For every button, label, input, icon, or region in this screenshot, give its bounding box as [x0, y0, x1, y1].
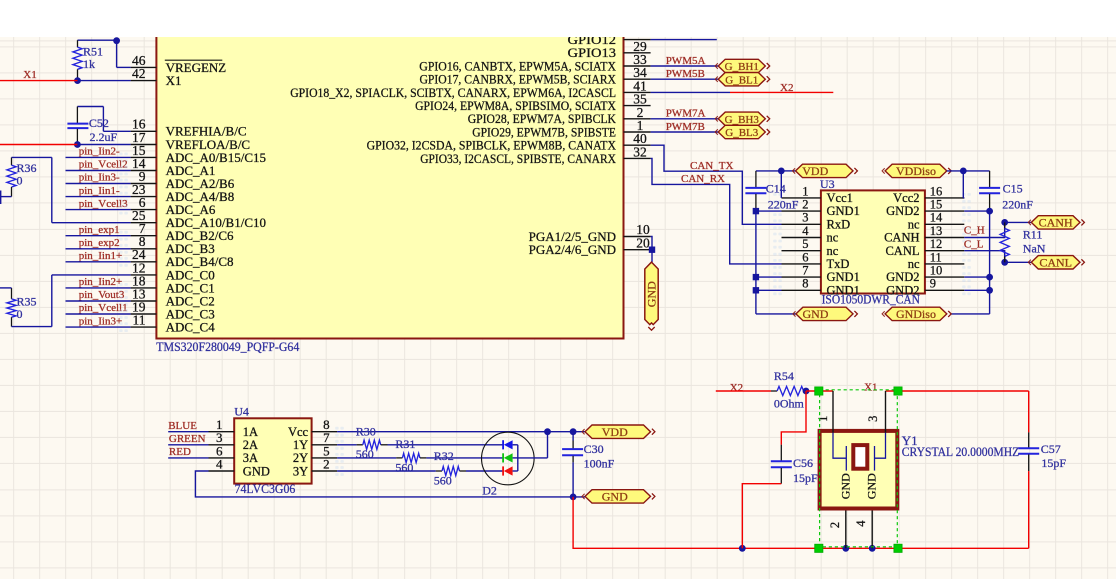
wire	[780, 171, 782, 198]
U2 pin 19 (ADC_C3)	[131, 299, 215, 321]
wire VDD row	[337, 431, 585, 433]
wire	[951, 313, 990, 315]
svg-text:GND1: GND1	[827, 270, 860, 284]
svg-text:PGA2/4/6_GND: PGA2/4/6_GND	[529, 242, 616, 257]
wire	[756, 289, 782, 291]
wire	[168, 457, 208, 459]
svg-text:C56: C56	[793, 456, 813, 470]
svg-text:X1: X1	[166, 73, 182, 88]
wire	[651, 250, 653, 262]
svg-text:32: 32	[633, 144, 647, 159]
junction	[1001, 219, 1008, 226]
wire	[547, 432, 549, 458]
junction	[753, 208, 759, 214]
U2 pin 23 (ADC_A4/B8)	[131, 182, 235, 204]
svg-text:C_L: C_L	[964, 238, 984, 250]
wire	[964, 210, 989, 212]
U3 pin 12 (CANL)	[885, 237, 964, 258]
svg-text:GREEN: GREEN	[169, 433, 206, 445]
wire	[756, 170, 781, 172]
wire	[103, 130, 130, 132]
svg-text:pin_Vcell3: pin_Vcell3	[79, 198, 128, 210]
wire CAN_TX	[651, 145, 782, 224]
svg-text:42: 42	[132, 66, 146, 81]
svg-text:2: 2	[828, 522, 842, 528]
svg-text:GPIO33, I2CASCL, SPIBSTE, CANA: GPIO33, I2CASCL, SPIBSTE, CANARX	[420, 151, 616, 166]
port CANH	[1031, 216, 1080, 229]
svg-text:9: 9	[930, 277, 936, 291]
U2 pin 8 (ADC_B3)	[131, 234, 215, 256]
U2 pin 9 (ADC_A2/B6)	[131, 169, 235, 191]
svg-text:4: 4	[216, 456, 223, 471]
junction	[544, 428, 551, 435]
U4 pin 2 (3Y)	[293, 456, 337, 478]
U2 pin 11 (ADC_C4)	[131, 313, 216, 335]
svg-text:GND1: GND1	[827, 283, 860, 297]
svg-text:nc: nc	[827, 231, 839, 245]
wire	[989, 211, 991, 314]
svg-text:nc: nc	[908, 217, 920, 231]
U2 pin 17 (VREFLOA/B/C)	[131, 130, 251, 152]
svg-text:10: 10	[930, 264, 943, 278]
port G_BL1	[718, 73, 765, 86]
wire	[52, 222, 131, 224]
capacitor C14	[745, 171, 798, 212]
svg-text:GNDiso: GNDiso	[896, 307, 936, 321]
svg-text:CRYSTAL 20.0000MHZ: CRYSTAL 20.0000MHZ	[902, 444, 1020, 459]
svg-text:CANL: CANL	[885, 244, 919, 258]
net label pin_Iin2+	[66, 276, 131, 288]
net label pin_Vcell3	[66, 198, 131, 210]
junction	[869, 545, 876, 552]
svg-text:4: 4	[854, 520, 868, 527]
svg-text:12: 12	[930, 237, 943, 251]
svg-text:3: 3	[802, 211, 808, 225]
wire	[78, 80, 131, 82]
U3 pin 1 (Vcc1)	[782, 184, 853, 205]
IC U3 ISO1050DWR_CAN body	[821, 190, 925, 293]
wire	[102, 107, 104, 132]
LED D2 element (green)	[503, 453, 518, 462]
svg-text:CANH: CANH	[884, 231, 919, 245]
svg-text:C52: C52	[89, 116, 109, 130]
svg-text:560: 560	[395, 461, 413, 475]
capacitor C57	[1018, 432, 1066, 471]
svg-text:GND: GND	[838, 473, 852, 499]
net wire (red)	[806, 390, 833, 392]
svg-text:Vcc1: Vcc1	[827, 191, 853, 205]
svg-text:R54: R54	[774, 369, 794, 383]
net X2 wire (red)	[730, 91, 833, 93]
wire	[756, 276, 782, 278]
junction	[986, 274, 993, 281]
svg-text:G_BH3: G_BH3	[725, 114, 760, 126]
wire PWM7A	[651, 118, 719, 120]
LED D2 element (blue)	[503, 440, 518, 449]
wire	[66, 196, 131, 198]
svg-text:2Y: 2Y	[293, 451, 308, 465]
wire PWM5B	[651, 78, 719, 80]
U2 pin 34 (GPIO16)	[419, 58, 650, 80]
svg-text:1k: 1k	[83, 57, 95, 71]
junction	[74, 141, 81, 148]
svg-text:2: 2	[802, 198, 808, 212]
U2 pin 13 (ADC_C2)	[131, 286, 215, 308]
wire	[963, 170, 989, 172]
U2 pin 46 (VREGENZ)	[131, 53, 227, 75]
wire	[0, 191, 2, 205]
svg-text:74LVC3G06: 74LVC3G06	[235, 481, 296, 496]
wire	[962, 171, 964, 198]
svg-text:pin_Iin3-: pin_Iin3-	[79, 172, 120, 184]
crystal GND pad labels	[838, 473, 878, 499]
selection handle (green)	[894, 387, 902, 395]
svg-text:pin_exp1: pin_exp1	[79, 224, 120, 236]
junction	[74, 77, 81, 84]
svg-text:5: 5	[802, 237, 808, 251]
junction	[960, 168, 967, 175]
net label pin_Vcell1	[66, 302, 131, 314]
crystal Y1 pin 3	[866, 391, 885, 433]
svg-text:VDDiso: VDDiso	[896, 164, 936, 178]
wire GPIO12 stub	[651, 39, 717, 41]
wire	[12, 326, 52, 328]
resistor R31	[337, 437, 426, 475]
svg-text:2: 2	[323, 456, 330, 471]
junction	[113, 37, 120, 44]
selection handle (green)	[815, 387, 823, 395]
capacitor C56	[771, 445, 818, 485]
svg-text:C14: C14	[766, 182, 786, 196]
wire PWM7B	[651, 131, 719, 133]
U4 pin 7 (1Y)	[293, 430, 337, 452]
svg-text:GND: GND	[645, 281, 659, 307]
wire	[755, 211, 757, 314]
wire	[66, 326, 131, 328]
svg-text:15: 15	[930, 198, 943, 212]
svg-text:G_BL1: G_BL1	[725, 74, 758, 86]
svg-text:6: 6	[802, 250, 808, 264]
junction	[803, 388, 810, 395]
U2 pin 32 (GPIO32)	[367, 138, 651, 160]
power port VDDiso	[885, 164, 947, 177]
junction	[986, 208, 993, 215]
svg-text:X1: X1	[23, 69, 36, 81]
svg-text:GND: GND	[602, 490, 628, 504]
svg-text:C30: C30	[584, 442, 604, 456]
svg-text:GND2: GND2	[886, 204, 919, 218]
junction	[570, 494, 577, 501]
resistor R32	[337, 449, 466, 488]
wire	[651, 237, 652, 250]
wire	[466, 470, 503, 472]
U3 pin 10 (GND2)	[886, 264, 964, 285]
U3 pin 14 (nc)	[908, 211, 965, 232]
svg-text:11: 11	[930, 250, 942, 264]
white top band	[0, 0, 1116, 37]
wire GPIO18 row	[651, 91, 730, 93]
svg-text:20: 20	[636, 235, 650, 250]
selection handle (green)	[894, 544, 902, 552]
U2 pin (GPIO33)	[420, 151, 650, 166]
port G_BH1	[718, 59, 765, 72]
svg-text:RED: RED	[169, 446, 191, 458]
U4 pin 3 (2A)	[209, 430, 259, 452]
junction	[842, 545, 849, 552]
svg-text:3A: 3A	[243, 451, 258, 465]
U2 pin 42 (X1)	[131, 66, 182, 88]
U3 pin 15 (GND2)	[886, 198, 964, 219]
U2 pin 40 (GPIO29)	[472, 124, 650, 146]
svg-text:1Y: 1Y	[293, 438, 308, 452]
junction	[778, 168, 785, 175]
IC U2 TMS320F280049 body	[156, 26, 623, 339]
crystal Y1 pin 1	[816, 391, 833, 433]
capacitor C15	[979, 171, 1033, 212]
LED D2 element (red)	[503, 466, 518, 475]
net X1 wire (red)	[0, 80, 78, 82]
port G_BH3	[718, 112, 765, 125]
junction	[739, 545, 746, 552]
wire	[12, 156, 52, 158]
net label pin_Vout3	[66, 289, 131, 301]
U3 pin 3 (RxD)	[782, 211, 851, 232]
svg-text:13: 13	[930, 224, 943, 238]
wire	[964, 276, 989, 278]
svg-text:15pF: 15pF	[1041, 456, 1066, 470]
svg-text:GND: GND	[243, 464, 270, 478]
svg-text:14: 14	[930, 211, 943, 225]
svg-text:D2: D2	[482, 483, 497, 497]
svg-text:R32: R32	[434, 449, 454, 463]
power port GND	[585, 490, 651, 503]
svg-text:1A: 1A	[243, 425, 258, 439]
resistor R54	[771, 369, 806, 411]
wire	[51, 275, 53, 327]
svg-text:15pF: 15pF	[793, 471, 818, 485]
net label pin_Iin1+	[66, 250, 131, 262]
wire	[77, 106, 103, 108]
wire GND of U4	[195, 471, 585, 497]
wire	[168, 444, 208, 446]
U2 pin 20 (PGA2/4/6_GND)	[529, 235, 651, 257]
U3 pin 9 (GND2)	[886, 277, 964, 298]
wire	[964, 289, 989, 291]
U2 pin 33 (GPIO13)	[568, 45, 651, 67]
wire	[168, 431, 208, 433]
net label pin_Iin2-	[66, 146, 131, 158]
svg-text:PWM7A: PWM7A	[666, 108, 706, 120]
selection handle (green)	[815, 544, 823, 552]
svg-text:X2: X2	[730, 382, 743, 394]
wire	[0, 196, 12, 198]
svg-text:pin_Iin2-: pin_Iin2-	[79, 146, 120, 158]
wire	[0, 287, 12, 289]
crystal Y1 pin 2	[828, 511, 846, 549]
U3 pin 5 (nc)	[782, 237, 839, 258]
U2 pin 18 (ADC_C1)	[131, 273, 215, 295]
svg-text:R30: R30	[356, 425, 376, 439]
U4 pin 5 (2Y)	[293, 443, 337, 465]
svg-text:11: 11	[133, 313, 146, 328]
wire	[66, 313, 131, 315]
power port GND	[796, 307, 853, 320]
svg-text:pin_Iin2+: pin_Iin2+	[79, 276, 122, 288]
svg-text:pin_exp2: pin_exp2	[79, 237, 120, 249]
wire	[518, 457, 548, 459]
wire	[51, 157, 53, 222]
svg-text:nc: nc	[908, 257, 920, 271]
port CANL	[1031, 256, 1080, 269]
IC U4 74LVC3G06 body	[234, 418, 311, 483]
svg-text:2A: 2A	[243, 438, 258, 452]
svg-text:1: 1	[802, 184, 808, 198]
svg-text:4: 4	[802, 224, 809, 238]
svg-text:pin_Iin1-: pin_Iin1-	[79, 185, 120, 197]
svg-text:100nF: 100nF	[584, 456, 615, 470]
svg-text:16: 16	[930, 184, 943, 198]
net label pin_exp1	[66, 224, 131, 236]
svg-text:PWM5B: PWM5B	[666, 68, 705, 80]
svg-text:TMS320F280049_PQFP-G64: TMS320F280049_PQFP-G64	[156, 339, 299, 354]
wire	[66, 248, 131, 250]
net X1 wire (red)	[886, 390, 1029, 392]
svg-text:pin_Vcell1: pin_Vcell1	[79, 302, 128, 314]
svg-text:PWM7B: PWM7B	[666, 121, 705, 133]
svg-text:X1: X1	[864, 382, 877, 394]
net X2 wire (red)	[716, 390, 771, 392]
U4 pin 4 (GND)	[209, 456, 270, 478]
svg-text:G_BL3: G_BL3	[725, 127, 759, 139]
svg-text:0: 0	[17, 307, 23, 321]
LED D2 (RGB) outline circle	[482, 432, 535, 485]
svg-text:0: 0	[17, 173, 23, 187]
capacitor C30	[562, 432, 615, 497]
net wire (red) right leg	[1028, 391, 1030, 432]
U2 pin 25 (ADC_A10/B1/C10)	[131, 208, 266, 230]
resistor R35	[7, 288, 37, 327]
U3 pin 7 (GND1)	[782, 264, 860, 285]
U4 pin 8 (Vcc)	[288, 417, 337, 439]
svg-text:R31: R31	[395, 437, 415, 451]
capacitor C52	[67, 107, 117, 145]
selection dashed box (green)	[820, 390, 898, 547]
net wire (red)	[1028, 471, 1030, 548]
net label pin_Iin3-	[66, 172, 131, 184]
svg-text:VDD: VDD	[602, 425, 628, 439]
svg-text:GND: GND	[802, 307, 828, 321]
junction	[1001, 259, 1008, 266]
U2 pin 12 (ADC_C0)	[131, 260, 215, 282]
svg-text:8: 8	[802, 277, 808, 291]
resistor R30	[337, 425, 387, 462]
svg-text:BLUE: BLUE	[168, 420, 197, 432]
wire	[77, 144, 130, 146]
crystal symbol leads	[833, 433, 886, 471]
wire	[78, 39, 117, 41]
resistor R36	[7, 157, 37, 196]
power port VDD	[585, 425, 651, 438]
junction	[570, 428, 577, 435]
wire PWM5A	[651, 65, 719, 67]
svg-text:560: 560	[434, 474, 452, 488]
svg-text:pin_Iin1+: pin_Iin1+	[79, 250, 122, 262]
U2 pin 35 (GPIO18_X2)	[290, 85, 650, 107]
net label pin_Iin3+	[66, 315, 131, 327]
U3 pin 6 (TxD)	[782, 250, 850, 271]
net wire (red)	[742, 484, 781, 549]
resistor R51	[73, 40, 103, 80]
svg-text:VDD: VDD	[802, 164, 828, 178]
junction	[649, 247, 655, 253]
junction	[753, 274, 759, 280]
net wire (red) from GND junction to bottom bus	[573, 497, 1029, 548]
wire	[116, 40, 118, 67]
U2 pin 6 (ADC_A6)	[131, 195, 216, 217]
svg-text:pin_Vcell2: pin_Vcell2	[79, 159, 128, 171]
svg-text:C57: C57	[1041, 442, 1061, 456]
wire	[756, 210, 782, 212]
svg-text:7: 7	[802, 264, 808, 278]
U2 pin 7 (ADC_B2/C6)	[131, 221, 234, 243]
svg-text:PWM5A: PWM5A	[666, 55, 706, 67]
U3 pin 16 (Vcc2)	[893, 184, 964, 205]
svg-text:3: 3	[866, 416, 880, 422]
U3 pin 4 (nc)	[782, 224, 839, 245]
svg-text:2.2uF: 2.2uF	[90, 130, 118, 144]
U2 pin 24 (ADC_B4/C8)	[131, 247, 234, 269]
svg-text:GND: GND	[865, 473, 879, 499]
svg-text:GND2: GND2	[886, 270, 919, 284]
svg-text:GND1: GND1	[827, 204, 860, 218]
power port GND (vertical)	[645, 262, 659, 330]
U3 pin 2 (GND1)	[782, 198, 860, 219]
U3 pin 11 (nc)	[908, 250, 965, 271]
svg-text:ADC_C4: ADC_C4	[166, 320, 216, 335]
svg-text:pin_Vout3: pin_Vout3	[79, 289, 125, 301]
U2 pin 14 (ADC_A1)	[131, 156, 216, 178]
svg-text:U3: U3	[820, 177, 835, 191]
net label pin_Vcell2	[66, 159, 131, 171]
net label pin_Iin1-	[66, 185, 131, 197]
wire	[426, 457, 503, 459]
wire	[66, 261, 131, 263]
wire	[781, 170, 795, 172]
U2 pin 41 (GPIO17)	[420, 72, 651, 94]
svg-text:220nF: 220nF	[1002, 197, 1033, 211]
svg-text:RxD: RxD	[827, 217, 851, 231]
svg-text:220nF: 220nF	[768, 197, 799, 211]
U4 pin 6 (3A)	[209, 443, 259, 465]
svg-text:CAN_TX: CAN_TX	[690, 160, 733, 172]
crystal quartz rectangle	[853, 445, 867, 469]
svg-text:pin_Iin3+: pin_Iin3+	[79, 315, 122, 327]
U2 pin 15 (ADC_A0/B15/C15)	[131, 143, 266, 165]
junction	[986, 287, 993, 294]
wire	[963, 197, 964, 199]
power port GNDiso	[885, 307, 947, 320]
svg-text:1: 1	[816, 416, 830, 422]
svg-text:X2: X2	[780, 82, 793, 94]
U4 pin 1 (1A)	[209, 417, 259, 439]
port G_BL3	[718, 125, 765, 138]
U3 pin 8 (GND1)	[782, 277, 860, 298]
svg-text:560: 560	[356, 447, 374, 461]
net label pin_exp2	[66, 237, 131, 249]
svg-text:G_BH1: G_BH1	[725, 61, 759, 73]
U2 pin 16 (VREFHIA/B/C)	[131, 117, 247, 139]
wire	[66, 183, 131, 185]
